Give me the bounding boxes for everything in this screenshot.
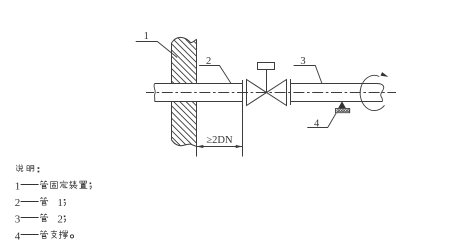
svg-text:2: 2 (57, 214, 63, 226)
svg-text:1: 1 (144, 31, 149, 42)
svg-text:4: 4 (314, 119, 320, 130)
svg-text:≥2DN: ≥2DN (206, 135, 233, 146)
svg-text:1: 1 (15, 181, 21, 193)
svg-text:2: 2 (15, 197, 21, 209)
svg-text:1: 1 (57, 197, 63, 209)
svg-text:3: 3 (15, 214, 21, 226)
svg-text:4: 4 (15, 230, 21, 242)
